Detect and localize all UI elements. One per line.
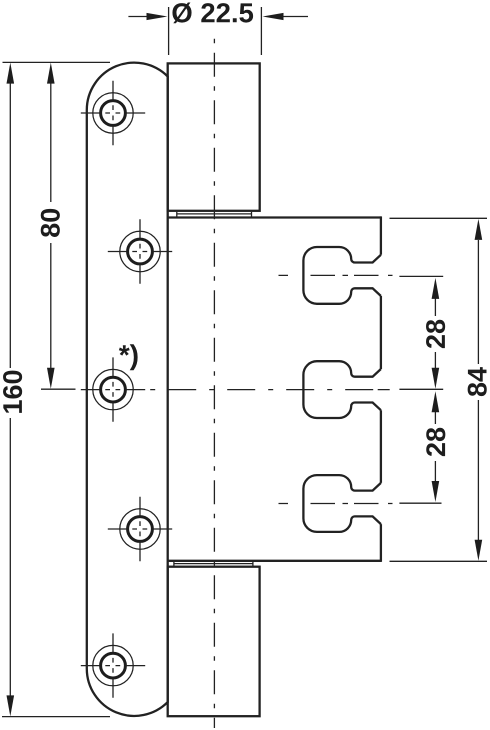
crosshair hole 4 <box>108 528 172 530</box>
leaf plate outline <box>87 63 168 716</box>
dim text 28 lower <box>426 428 445 456</box>
screw holes <box>93 93 160 686</box>
crosshair hole 5 <box>81 665 145 667</box>
slot 3 <box>303 475 381 532</box>
dim text 160 <box>3 371 22 413</box>
frame wing bottom edge <box>168 560 381 562</box>
hole 3 crosshair on main centerline <box>81 389 145 391</box>
knuckle bottom <box>168 567 260 717</box>
slot 1 <box>303 247 381 304</box>
arrows dia 22.5 <box>147 13 168 20</box>
hole 4 <box>120 509 160 549</box>
knuckle gap washer top <box>177 212 252 217</box>
arrows 84 <box>475 219 483 240</box>
main horizontal centerline <box>150 389 390 391</box>
arrows 28 lower <box>432 391 440 412</box>
dim text 28 upper <box>426 320 445 348</box>
vertical axis of knuckles <box>213 36 215 728</box>
arrows 160 <box>7 63 15 84</box>
knuckle top <box>168 63 260 210</box>
extension line frame bottom <box>390 560 488 562</box>
crosshair hole 3 <box>112 357 114 421</box>
dim text 84 <box>468 367 487 396</box>
dim text diameter 22.5 <box>172 3 253 24</box>
dim text 80 <box>41 209 60 237</box>
dimension line 160 <box>9 80 11 368</box>
crosshair hole 1 <box>81 112 145 114</box>
dimension line dia 22.5 <box>128 16 149 18</box>
frame wing right edge segments <box>380 216 382 562</box>
extension line main axis <box>399 388 443 390</box>
extension line slot 1 axis <box>399 275 443 277</box>
crosshair hole 2 <box>108 251 172 253</box>
centerlines <box>81 36 393 728</box>
knuckle gap washer bottom <box>174 562 253 567</box>
slot 2 <box>303 361 381 418</box>
arrows 80 <box>47 63 55 84</box>
footnote label *) <box>119 344 138 370</box>
extension line bottom <box>2 716 110 718</box>
extension lines dia 22.5 <box>168 7 170 55</box>
slot1 centerline <box>279 274 394 276</box>
slot3 centerline <box>279 503 394 505</box>
frame wing top edge <box>168 216 381 218</box>
extension line top <box>3 61 111 63</box>
hole 1 <box>93 93 133 133</box>
extension line slot 3 axis <box>399 502 441 504</box>
arrows 28 upper <box>432 278 440 299</box>
hole 5 <box>93 645 133 685</box>
dimension line 84 <box>477 240 479 364</box>
extension line hole 3 level <box>41 388 76 390</box>
extension line frame top <box>390 217 488 219</box>
dimension line 28 lower <box>434 412 436 424</box>
hole 3 <box>93 369 133 409</box>
dimension line 28 upper <box>434 298 436 316</box>
hole 2 <box>120 231 160 271</box>
dimension line 80 <box>50 80 52 202</box>
